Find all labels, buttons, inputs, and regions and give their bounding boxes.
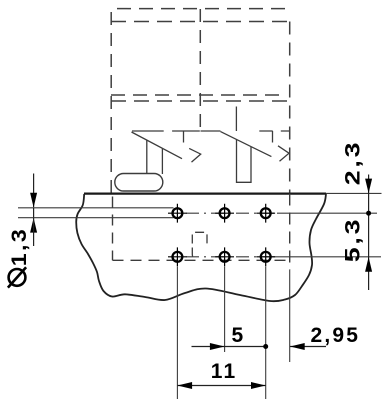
clamp chamber floor line, cell 2 [201,130,290,132]
drill hole B2 (row2 col2) [215,247,234,266]
extension line hole B3 downward [265,267,267,400]
drill hole A3 (row1 col3) [256,204,275,223]
svg-text:1,3: 1,3 [7,227,31,266]
row 1 centerline dash-dot [186,212,277,214]
hole diameter tangent line (bottom) [18,217,174,219]
dimension junction dot at hole B3 [263,344,268,349]
connector body right dashed edge [289,22,291,194]
clamp spring diagonal, cell 2 [221,132,272,157]
dimension 2,3 arrow down [365,179,372,194]
footprint right dashed edge below board [289,194,291,271]
footprint left dashed edge below board [112,197,114,261]
wire clamp vertical, cell 2 [235,107,237,132]
dimension 2,3 / 5,3 vertical line [368,175,370,291]
footprint bottom dashed line below board [113,259,290,261]
drill hole A2 (row1 col2) [215,204,234,223]
connector seam dashed line (lower) [111,100,290,102]
extension line at board surface (right) [326,192,382,194]
chevron arrow, cell 2 [278,146,289,161]
row 2 centerline dash-dot [186,256,272,258]
connector body left dashed edge [110,12,112,194]
dimension Ø1,3 arrow up [30,218,37,233]
solder bead stadium, cell 1 [115,174,163,192]
center pin dashed outline above hole 2 [192,232,207,258]
dimension symbol Ø (circle with slash) [9,269,26,286]
extension line right edge downward [289,270,291,362]
small tab, cell 2 [272,131,274,143]
dimension Ø1,3 arrow down [30,193,37,208]
dimension Ø1,3 leader line (top) [33,174,35,218]
contact leg, cell 2 [237,140,252,183]
dimension 5,3 arrow up [365,257,372,272]
dimension 2,95 arrow left [290,343,305,350]
PCB section wavy break outline [76,194,326,301]
dimension Ø1,3 leader tail (bottom) [33,218,35,246]
row 1 centerline solid extension [277,212,377,214]
connector body top dashed line (upper) [117,8,288,10]
drill hole B1 (row2 col1) [168,247,187,266]
dimension 5 arrow right [210,343,225,350]
extension line hole B1 downward [176,267,178,400]
connector seam dashed line (upper) [111,94,284,96]
connector body top dashed line (lower) [111,21,290,23]
row 2 centerline solid extension [272,256,381,258]
small tab, cell 1 [183,131,185,143]
dimension 11 arrow right [251,382,266,389]
dimension 11 arrow left [177,382,192,389]
hole diameter tangent line (top) [18,207,174,209]
svg-text:5,3: 5,3 [341,217,365,262]
clamp chamber floor line, cell 1 [132,130,200,132]
chevron arrow, cell 1 [189,148,201,162]
extension line hole B2 downward [224,267,226,353]
connector middle divider dashed [199,9,201,131]
contact leg, cell 1 [147,140,163,174]
svg-text:2,3: 2,3 [341,140,365,185]
svg-text:2,95: 2,95 [311,324,361,347]
PCB top surface line (thick) [84,193,326,195]
svg-text:11: 11 [211,360,238,383]
dimension 2,95 line [290,346,326,348]
dimension 5 line [192,346,266,348]
svg-text:5: 5 [232,324,246,347]
drill hole A1 (row1 col1) [168,204,187,223]
drill hole B3 (row2 col3) [256,247,275,266]
dimension 11 line [177,385,265,387]
clamp spring diagonal, cell 1 [132,132,183,159]
dimension junction dot at row1 [366,211,371,216]
